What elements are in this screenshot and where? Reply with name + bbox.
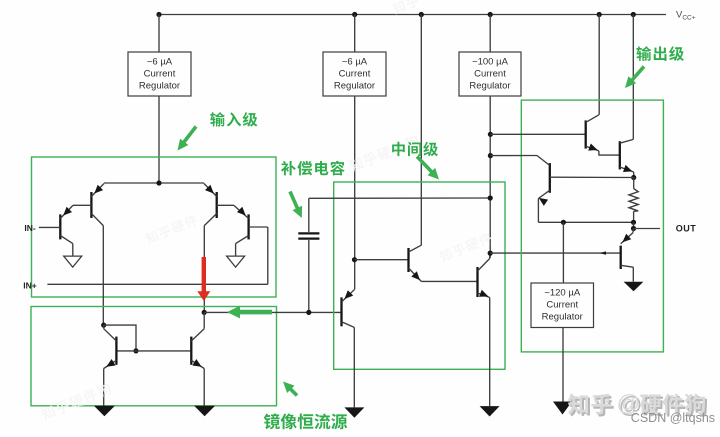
Q7m collector [191,329,204,341]
wire Q3 collector down to mirror node [203,226,205,313]
svg-text:Regulator: Regulator [469,81,510,92]
node resistor bottom [631,220,636,225]
Q8 collector [478,259,490,272]
current regulator box 1 [128,52,191,96]
label output stage 输出级 [636,46,684,61]
Q2 collector [91,214,103,226]
Q10 emitter [620,167,634,172]
svg-text:~6 µA: ~6 µA [342,57,368,68]
transistor Q7m (mirror right NPN) [190,337,192,365]
wire resistor node to OUT node [633,222,635,228]
current regulator box 2 [323,52,386,96]
svg-text:Regulator: Regulator [334,81,375,92]
Q6 emitter arrow [106,359,115,367]
wire rail to regulator 2 [354,15,356,53]
node Q8 collector [488,251,493,256]
node Q9 base [488,132,493,137]
middle stage green annotation box [334,182,505,369]
resistor zigzag [629,189,638,212]
node mirror input [202,310,207,315]
wire Q6 collector stub [103,325,105,329]
node OUT [631,226,636,231]
Vee arrow regulator4 [553,402,572,415]
transistor Q8 (middle NPN 2) [476,267,478,297]
faint watermark texture [348,134,421,174]
Q5 emitter [342,289,355,302]
transistor Q9 (output NPN darlington 1) [585,120,587,148]
Q3 collector [204,214,216,226]
node Q12 collector [488,153,493,158]
Q7 collector [409,245,422,252]
node 120uA regulator top [561,220,566,225]
svg-text:Regulator: Regulator [542,312,583,323]
Q7 emitter [409,268,422,281]
green arrow mirror node [237,310,272,315]
node Q6 collector [101,323,106,328]
svg-text:Current: Current [546,300,578,311]
svg-text:CSDN @ltqshs: CSDN @ltqshs [631,411,715,425]
Q4 base wire [249,226,268,228]
wire Q12 collector [490,155,537,157]
Q9 emitter arrow [588,144,597,151]
Q7m emitter arrow [192,359,201,367]
Q13 emitter arrow [622,234,631,243]
resistor bottom lead [633,211,635,222]
Vee arrow Q5 [344,407,364,417]
Q13 collector [621,265,634,267]
Q1 base wire from IN- [39,226,60,228]
wire mirror to Q5 base [204,311,341,313]
wire diode connection [104,325,136,351]
Q3 base wire [217,204,234,206]
transistor Q4 (outer right PNP) [247,214,249,239]
wire input pair top [104,182,204,184]
Q2 emitter arrow [94,185,103,194]
wire Q4 collector to gnd symbol [235,244,237,257]
node Q7 base tap [352,257,357,262]
label compensation cap 补偿电容 [281,161,345,176]
wire Q10 emitter down [633,172,635,178]
Q4 emitter arrow [237,207,246,216]
wire Q12 emitter down [537,199,539,223]
Q7 emitter arrow [411,271,420,280]
rail junction E [597,12,602,17]
Q12 emitter [538,190,549,198]
transistor Q5 (middle PNP) [340,297,342,326]
Q6 collector [104,329,117,341]
rail junction A [156,12,161,17]
rail junction B [352,12,357,17]
svg-text:IN-: IN- [24,223,36,233]
wire rail to Q9 collector [598,15,600,115]
Vee arrow mirror right [194,406,215,416]
transistor Q13 (output PNP low side) [620,246,622,269]
wire regulator1 to input stage [158,96,160,183]
Q5 collector [342,322,355,328]
svg-text:~120 µA: ~120 µA [544,288,581,299]
wire Q1 collector to gnd symbol [72,244,74,257]
Vee arrow Q13 [624,282,644,292]
rail junction D [488,12,493,17]
cap top lead [308,198,310,232]
label mirror source 镜像恒流源 [264,413,347,429]
ground symbol left [64,256,82,267]
Q1 emitter [60,206,73,219]
Q3 emitter arrow [205,185,214,194]
wire regulator2 down to Q5 emitter [354,96,356,289]
current regulator box 3 [459,52,521,96]
Q7 base wire [355,259,409,261]
Q2 emitter [91,184,104,197]
transistor Q12 (output PNP) [549,163,551,193]
wire Q7m emitter to Vee [203,369,205,407]
current regulator box 4 [531,283,594,328]
wire Q7m collector stub [203,312,205,328]
Q12 collector diag [537,156,550,166]
Q1 collector [60,236,73,244]
rail junction C [419,12,424,17]
svg-text:Current: Current [339,69,371,80]
wire Q2 collector down to mirror [102,226,104,326]
wire Q4 base to IN+ [267,227,269,284]
wire Q8 emitter to Vee [489,298,491,407]
wire OUT node to Q13 emitter [632,229,635,233]
green arrow middle stage [417,157,433,174]
wire Q8 collector stub [489,253,491,258]
red annotation arrow [202,257,206,292]
Q4 collector [236,236,249,244]
green arrow input stage [183,127,197,145]
node resistor top [631,175,636,180]
green arrow compensation cap [290,192,298,211]
Q9 base wire [490,133,585,135]
wire regulator4 to Vee [562,328,564,402]
Q8 emitter arrow [479,290,488,297]
Q5 emitter arrow [344,290,353,299]
node cap wire regulator3 [488,195,493,200]
wire rail to Q7 collector [420,15,422,246]
wire rail to regulator 3 [489,15,491,53]
transistor Q1 (outer left PNP) [59,214,61,239]
rail junction F [631,12,636,17]
green arrow mirror source [289,387,297,395]
transistor Q7 (middle NPN) [407,248,409,272]
wire Q5 collector to Vee [353,327,355,407]
wire rail to Q10 collector [632,15,634,140]
resistor top lead [633,178,635,189]
output stage green annotation box [521,100,663,352]
wire Q13 collector down [632,267,634,282]
Q4 emitter [234,206,249,219]
transistor Q6 (mirror left NPN) [115,337,117,365]
Q12 base wire [550,176,634,178]
Q2 base wire [73,204,92,206]
wire cap top to regulator3 node [309,197,490,199]
wire mirror bases [116,350,191,352]
wire Q6 emitter to Vee [103,369,105,407]
transistor Q10 (output NPN darlington 2) [619,141,621,169]
svg-text:~6 µA: ~6 µA [147,57,173,68]
Q10 collector [620,139,634,143]
wire node to regulator4 [562,222,564,283]
OUT wire [634,228,661,230]
Q13 emitter diag [621,233,633,244]
Q12 emitter arrow [539,198,548,206]
node mirror bases [133,348,138,353]
wire to Q13 base [490,252,621,254]
Q8 emitter [478,293,490,298]
ground symbol right [227,256,245,267]
wire rail to regulator 1 [158,15,160,53]
small arrow on Q13 base wire [600,251,607,254]
Vee arrow Q8 [480,406,500,416]
svg-text:Current: Current [144,69,176,80]
watermark zhihu [570,396,614,417]
Vee arrow mirror left [94,406,115,416]
svg-text:Regulator: Regulator [139,81,180,92]
transistor Q3 (inner right PNP) [216,192,218,218]
wire Q7 emitter to Q8 base [421,280,477,282]
transistor Q2 (inner left PNP) [90,192,92,218]
green arrow output stage [631,67,645,82]
Q1 emitter arrow [63,207,72,216]
Q9 collector [586,115,599,123]
cap bottom lead [308,240,310,312]
Q10 emitter arrow [623,165,632,172]
IN+ wire [47,283,267,285]
Q9 emitter [586,146,599,151]
wire to resistor bottom [538,221,633,223]
top power rail Vcc+ [159,14,666,16]
node cap to mirror wire [306,310,311,315]
svg-text:Current: Current [474,69,506,80]
input stage green annotation box [32,157,277,297]
svg-text:~100 µA: ~100 µA [472,57,509,68]
svg-text:OUT: OUT [676,224,697,234]
Q3 emitter [204,184,217,197]
current mirror green annotation box [31,307,277,406]
label middle stage 中间级 [392,142,438,157]
Q7m emitter [191,360,204,368]
node input pair top center [156,180,161,185]
Q6 emitter [104,360,117,368]
label input stage 输入级 [210,112,257,127]
wire Q1 emitter junction [72,204,74,206]
svg-text:IN+: IN+ [23,281,37,291]
wire Q9 emitter to Q10 base [599,151,620,155]
wire regulator3 down [489,96,491,258]
